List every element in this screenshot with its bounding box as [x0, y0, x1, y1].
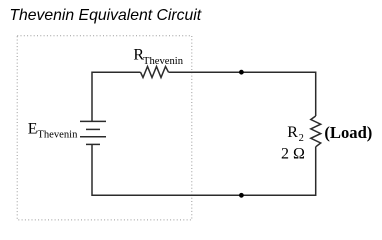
svg-text:2 Ω: 2 Ω: [281, 146, 305, 163]
svg-text:Thevenin: Thevenin: [143, 56, 184, 67]
svg-text:E: E: [28, 121, 38, 138]
svg-text:2: 2: [299, 133, 304, 144]
svg-text:(Load): (Load): [324, 123, 372, 142]
svg-text:Thevenin Equivalent Circuit: Thevenin Equivalent Circuit: [9, 7, 201, 24]
svg-text:R: R: [287, 124, 298, 141]
svg-text:Thevenin: Thevenin: [37, 130, 78, 141]
